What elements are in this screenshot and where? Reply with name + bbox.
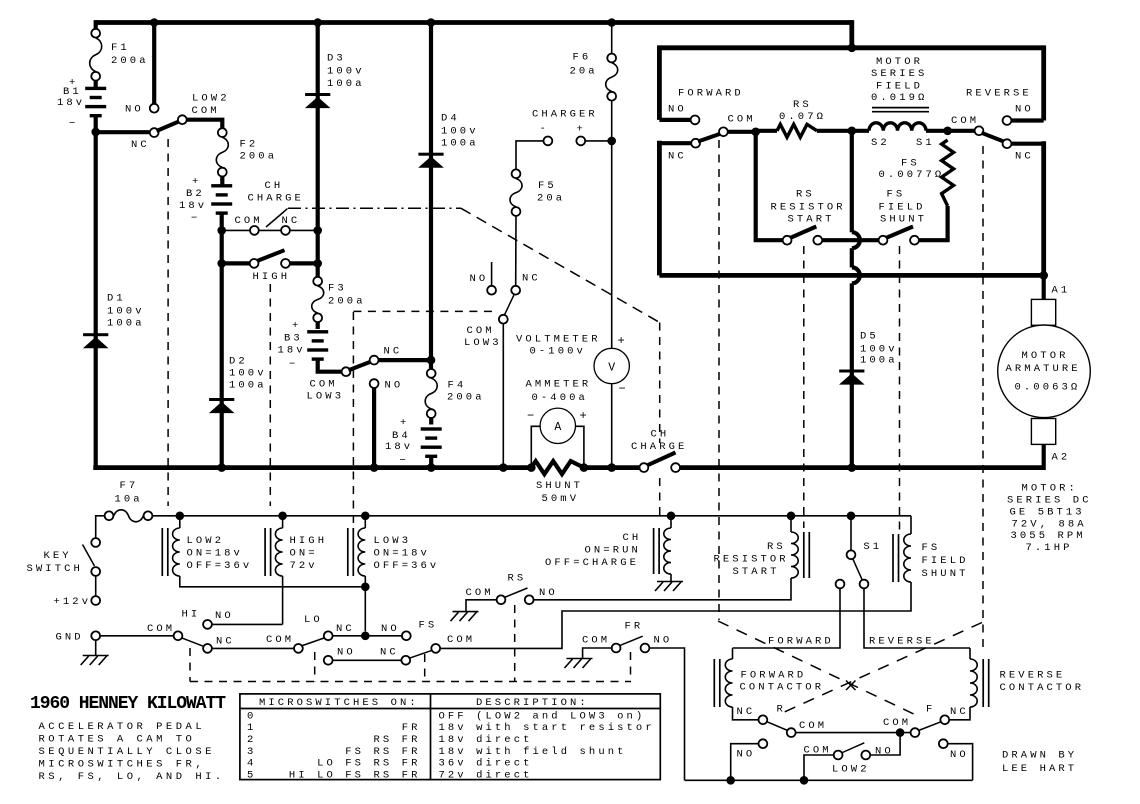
node D2 at bus — [217, 463, 226, 472]
svg-text:COM: COM — [266, 634, 294, 646]
terminal LO COM — [294, 644, 303, 653]
svg-text:5: 5 — [247, 770, 256, 782]
terminal REV COM — [975, 126, 984, 135]
svg-text:NC: NC — [384, 346, 403, 358]
svg-text:18v: 18v — [385, 441, 413, 453]
terminal LO NC — [324, 631, 333, 640]
svg-text:NC: NC — [216, 636, 235, 648]
wire LOW2sw COM drop — [804, 755, 833, 780]
svg-text:0-100v: 0-100v — [530, 346, 586, 358]
table microswitch box — [240, 694, 660, 780]
svg-text:D1: D1 — [107, 293, 126, 305]
node S2 junction — [848, 127, 857, 136]
fuse F4 200a — [427, 369, 436, 378]
coil CH relay — [664, 528, 671, 574]
svg-text:3: 3 — [247, 746, 256, 758]
svg-text:F1: F1 — [111, 42, 130, 54]
wire between hops — [850, 248, 854, 267]
switch blade R (NC-COM) — [767, 722, 788, 731]
wire HIGH row left — [222, 261, 250, 265]
svg-text:F5: F5 — [538, 180, 557, 192]
svg-text:200a: 200a — [328, 296, 366, 308]
svg-text:S1: S1 — [863, 541, 882, 553]
svg-text:F6: F6 — [573, 52, 592, 64]
node HIGH row right junction — [313, 259, 322, 268]
svg-text:COM: COM — [799, 720, 827, 732]
wire FORWARD coil bottom — [733, 707, 759, 720]
svg-text:100a: 100a — [327, 78, 365, 90]
svg-text:−: − — [191, 213, 200, 225]
svg-text:NO: NO — [737, 749, 756, 761]
switch blade LOW3 (COM-NC) — [349, 361, 372, 370]
ground symbol CH — [657, 581, 683, 583]
ground symbol key — [83, 655, 109, 657]
resistor RS 0.07 — [777, 124, 817, 137]
wire A2 lead — [1042, 444, 1046, 470]
switch blade CH CHARGE (open) — [647, 453, 676, 466]
meter voltmeter V — [594, 348, 629, 383]
svg-text:NC: NC — [1015, 151, 1034, 163]
core bars HIGH — [264, 528, 266, 576]
terminal LOW2 NO — [150, 104, 159, 113]
svg-text:DESCRIPTION:: DESCRIPTION: — [476, 697, 589, 709]
svg-text:72V, 88A: 72V, 88A — [1012, 519, 1087, 531]
motor terminal box top — [1031, 299, 1055, 325]
node charger junction — [607, 137, 616, 146]
switch blade LO (COM-NC) — [301, 638, 325, 647]
svg-text:36v direct: 36v direct — [439, 758, 533, 770]
resistor FS 0.0077 — [942, 140, 954, 206]
coil RS relay — [791, 532, 798, 578]
node coil bottom bus junction — [361, 583, 370, 592]
wire FR COM to ground — [583, 648, 612, 659]
wire LOW3 coil top lead — [364, 516, 366, 528]
wire RS junction down to switch — [756, 132, 783, 240]
svg-text:200a: 200a — [447, 392, 485, 404]
coil LOW2 relay — [173, 528, 180, 576]
terminal S1 left — [836, 580, 845, 589]
svg-text:CH: CH — [265, 180, 284, 192]
svg-text:SERIES DC: SERIES DC — [1007, 495, 1092, 507]
core bars REVERSE — [982, 659, 984, 707]
svg-text:RESISTOR: RESISTOR — [714, 554, 789, 566]
svg-text:NO: NO — [337, 647, 356, 659]
node S1 branch junction — [847, 512, 856, 521]
svg-text:FR: FR — [402, 722, 421, 734]
terminal S1 top — [847, 550, 856, 559]
svg-text:ACCELERATOR PEDAL: ACCELERATOR PEDAL — [39, 721, 206, 733]
switch blade F (COM-NC) — [919, 722, 942, 731]
wire F3 to B3 — [316, 322, 320, 329]
terminal FWD COM — [719, 127, 728, 136]
svg-text:7.1HP: 7.1HP — [1026, 542, 1073, 554]
svg-text:START: START — [733, 566, 780, 578]
switch blade RS start (open) — [790, 227, 816, 239]
terminal LOW2 COM — [178, 115, 187, 124]
svg-text:NO: NO — [668, 104, 687, 116]
svg-text:COM: COM — [467, 325, 495, 337]
svg-text:F7: F7 — [120, 480, 139, 492]
wire HIGH coil bottom riser — [282, 576, 284, 624]
wire chg COM down to bus — [502, 324, 504, 468]
wire RS COM to ground — [466, 600, 496, 612]
svg-text:NC: NC — [336, 623, 355, 635]
wire FWD COM to RS junction — [728, 130, 758, 134]
svg-text:NC: NC — [282, 215, 301, 227]
wire LO NC to NO — [333, 635, 402, 637]
terminal FR COM — [612, 644, 621, 653]
node LOW2 coil junction — [176, 512, 185, 521]
svg-text:GE 5BT13: GE 5BT13 — [1010, 507, 1085, 519]
diode D3 100v 100a — [305, 93, 330, 96]
terminal charger plus — [576, 137, 585, 146]
svg-text:RS, FS, LO, AND HI.: RS, FS, LO, AND HI. — [39, 771, 225, 783]
wire box bottom edge — [659, 273, 1043, 278]
wire Fwd aux NO drop — [731, 744, 759, 781]
svg-text:NC: NC — [522, 273, 541, 285]
core bars LOW3 — [347, 528, 349, 576]
terminal LOW3 NC — [370, 356, 379, 365]
svg-text:RS: RS — [793, 99, 812, 111]
terminal FSsw NO — [324, 656, 333, 665]
svg-text:LOW3: LOW3 — [374, 535, 412, 547]
wire hop over RS-FS row — [852, 232, 860, 248]
svg-text:18v with field shunt: 18v with field shunt — [439, 746, 627, 758]
svg-text:72v: 72v — [290, 560, 318, 572]
svg-text:0.0063Ω: 0.0063Ω — [1015, 382, 1081, 394]
svg-text:+: + — [577, 124, 586, 136]
svg-text:200a: 200a — [240, 150, 278, 162]
wire F7 left lead — [96, 516, 105, 538]
wire bus to F1 — [94, 20, 98, 28]
wire charger minus to F5 — [516, 141, 543, 169]
svg-text:+: + — [400, 417, 409, 429]
node CH coil junction — [667, 512, 676, 521]
terminal LOW2 NC — [150, 128, 159, 137]
table header underline — [240, 708, 660, 710]
dashed cross A — [718, 621, 918, 716]
svg-text:FORWARD: FORWARD — [741, 670, 807, 682]
svg-text:OFF=CHARGE: OFF=CHARGE — [545, 557, 639, 569]
terminal LOW2sw COM — [834, 751, 843, 760]
wire junction down to D1 and bottom bus — [94, 132, 98, 468]
switch blade LOW2 (NC-COM) — [157, 121, 181, 131]
svg-text:ON=18v: ON=18v — [374, 548, 430, 560]
svg-text:NC: NC — [668, 151, 687, 163]
wire S1 junction to REV COM — [948, 129, 975, 133]
terminal LOW3 NO — [370, 379, 379, 388]
svg-text:NC: NC — [737, 706, 756, 718]
wire F2 to B2 — [220, 177, 224, 185]
svg-text:SHUNT: SHUNT — [880, 214, 927, 226]
svg-text:NO: NO — [654, 635, 673, 647]
wire CH contact row — [222, 229, 318, 231]
node shunt left — [527, 463, 536, 472]
fuse F6 20a — [607, 54, 616, 63]
wire LOW3 NC to D4 junction — [379, 358, 431, 362]
switch blade HI (COM-NC) — [182, 638, 204, 647]
node bottom wire right — [800, 776, 809, 785]
wire B1 junction to LOW2 NC — [96, 130, 150, 134]
svg-text:0-400a: 0-400a — [532, 392, 588, 404]
coil LOW3 relay — [358, 528, 365, 576]
svg-text:FORWARD: FORWARD — [678, 88, 744, 100]
wire RS coil bottom — [534, 578, 791, 600]
wire contactor box top edge — [659, 45, 1043, 50]
svg-text:A1: A1 — [1052, 285, 1071, 297]
core bars FS — [892, 534, 894, 582]
wire S1 left to FORWARD — [733, 589, 841, 648]
svg-text:NO: NO — [385, 380, 404, 392]
terminal GND — [91, 631, 100, 640]
wire FS coil bottom — [440, 582, 911, 648]
core bars LOW2 — [161, 528, 163, 576]
terminal chg NC — [511, 286, 520, 295]
wire box left edge upper — [657, 45, 662, 120]
svg-text:CONTACTOR: CONTACTOR — [740, 682, 825, 694]
svg-text:F: F — [926, 704, 935, 716]
wire B4 to bottom bus — [429, 455, 433, 468]
switch blade HIGH (open) — [257, 250, 285, 261]
motor armature circle — [998, 325, 1091, 418]
svg-text:VOLTMETER: VOLTMETER — [516, 334, 601, 346]
wire LOW3 NO to bottom bus — [372, 388, 376, 467]
terminal chg NO — [487, 286, 496, 295]
dashed cam FR — [630, 652, 632, 682]
terminal HIGH b — [281, 259, 290, 268]
dashed cross B — [781, 623, 982, 714]
svg-text:KEY: KEY — [44, 550, 72, 562]
svg-text:FS: FS — [901, 158, 920, 170]
svg-text:LOW2: LOW2 — [832, 764, 870, 776]
node LOW3 coil junction — [361, 512, 370, 521]
wire box left edge lower — [657, 141, 662, 276]
terminal key switch top — [91, 538, 100, 547]
svg-text:CONTACTOR: CONTACTOR — [1000, 682, 1085, 694]
fuse F2 200a — [218, 128, 227, 137]
wire junction to F4 — [429, 360, 433, 369]
coil MOTOR SERIES FIELD — [869, 123, 926, 131]
wire CH coil top lead — [670, 516, 672, 528]
wire RS-FS row through hop — [823, 238, 879, 242]
svg-text:MICROSWITCHES ON:: MICROSWITCHES ON: — [259, 697, 419, 709]
svg-text:FIELD: FIELD — [879, 202, 926, 214]
svg-text:LOW3: LOW3 — [464, 337, 502, 349]
wire F5 to LOW3 NC contact — [515, 216, 517, 285]
node shunt right — [580, 463, 589, 472]
wire chg NO stub — [491, 262, 493, 286]
wire LOW3 coil bottom — [364, 576, 366, 631]
wire box right edge lower — [1041, 141, 1046, 275]
wire F4 to B4 — [429, 418, 433, 424]
svg-text:0: 0 — [247, 710, 256, 722]
svg-text:50mV: 50mV — [542, 493, 580, 505]
wire REV NC stub — [1012, 142, 1044, 146]
terminal RS switch right — [813, 236, 822, 245]
svg-text:LOW3: LOW3 — [307, 391, 345, 403]
svg-text:20a: 20a — [570, 66, 598, 78]
wire GND to HI COM — [100, 635, 173, 637]
svg-text:RS: RS — [767, 541, 786, 553]
svg-text:MOTOR:: MOTOR: — [1022, 483, 1078, 495]
svg-text:CH: CH — [623, 532, 642, 544]
terminal FSsw NC — [401, 656, 410, 665]
coil FORWARD contactor — [725, 659, 732, 707]
wire FWD NO stub — [659, 118, 690, 122]
terminal S1 right — [860, 580, 869, 589]
wire NO stub from top bus — [152, 23, 156, 104]
svg-text:SERIES: SERIES — [871, 68, 927, 80]
dashed link LOW2 — [167, 139, 169, 506]
svg-text:COM: COM — [728, 114, 756, 126]
wire hop over box bottom — [852, 267, 860, 283]
svg-text:REVERSE: REVERSE — [869, 636, 935, 648]
switch blade S1 — [853, 559, 862, 580]
svg-text:R: R — [777, 704, 786, 716]
node HIGH coil junction — [278, 512, 287, 521]
svg-text:FIELD: FIELD — [922, 555, 969, 567]
wire HIGH coil top lead — [282, 516, 284, 528]
wire charger plus to F6 line — [586, 140, 612, 142]
svg-text:NO: NO — [1015, 104, 1034, 116]
wire RS coil top lead — [790, 516, 792, 532]
svg-text:LO FS RS FR: LO FS RS FR — [317, 758, 420, 770]
dashed link CH diagonal — [461, 208, 660, 322]
wire D3 branch — [316, 23, 320, 277]
wire FWD NC stub — [659, 141, 691, 145]
svg-text:SHUNT: SHUNT — [536, 480, 583, 492]
svg-text:SHUNT: SHUNT — [922, 568, 969, 580]
switch blade key (open) — [83, 545, 95, 567]
switch blade FSsw (NC-COM) — [409, 650, 433, 658]
wire D4 branch — [429, 23, 433, 361]
terminal Rev ctr NC — [940, 715, 949, 724]
svg-text:100a: 100a — [107, 318, 145, 330]
svg-text:NO: NO — [470, 273, 489, 285]
wire FS coil top lead — [910, 516, 912, 534]
wire FS resistor to switch corner — [919, 206, 947, 240]
svg-text:−: − — [527, 409, 534, 423]
svg-text:COM: COM — [883, 717, 911, 729]
node CH row left junction — [217, 226, 226, 235]
terminal REV NO — [1003, 116, 1012, 125]
svg-text:NC: NC — [380, 647, 399, 659]
coil HIGH relay — [275, 528, 282, 576]
coil FS relay — [904, 534, 911, 582]
wire top bus to F6 — [611, 23, 613, 54]
svg-text:SWITCH: SWITCH — [27, 563, 83, 575]
svg-text:D5: D5 — [860, 331, 879, 343]
node D4 bottom junction — [427, 356, 436, 365]
wire bottom collector — [685, 779, 973, 781]
svg-text:FIELD: FIELD — [876, 81, 923, 93]
svg-text:MOTOR: MOTOR — [1022, 350, 1069, 362]
wire LOW2 coil top lead — [179, 516, 181, 528]
svg-text:COM: COM — [147, 623, 175, 635]
svg-text:F4: F4 — [448, 380, 467, 392]
battery B3 18v — [307, 330, 328, 333]
svg-text:0.0077Ω: 0.0077Ω — [879, 169, 945, 181]
svg-text:LEE HART: LEE HART — [1002, 763, 1077, 775]
svg-text:RS: RS — [796, 189, 815, 201]
svg-text:REVERSE: REVERSE — [966, 88, 1032, 100]
wire F6 to charger junction — [611, 101, 613, 141]
wire S2S1 drop upper — [850, 131, 854, 232]
wire GND stub to ground — [95, 641, 97, 656]
svg-text:4: 4 — [247, 758, 256, 770]
svg-text:20a: 20a — [537, 193, 565, 205]
wire top bus — [96, 20, 852, 25]
core bars FORWARD — [713, 659, 715, 707]
wire CH coil bottom — [670, 574, 672, 582]
wire B3 to LOW3 COM — [318, 360, 342, 372]
dashed link CH vertical upper — [659, 323, 661, 444]
core bars CH — [653, 528, 655, 574]
terminal RS COM — [497, 595, 506, 604]
terminal F COM — [911, 728, 920, 737]
dashed link FORWARD contactor — [718, 140, 720, 620]
switch blade CH (open) — [266, 209, 288, 228]
wire S1 riser — [850, 516, 852, 550]
wire HI NO to riser — [212, 623, 282, 625]
node top bus junction F6 branch — [607, 18, 616, 27]
switch blade LOW2sw (open) — [841, 743, 864, 753]
svg-text:18v: 18v — [57, 97, 85, 109]
svg-text:−: − — [289, 359, 298, 371]
terminal REV NC — [1003, 139, 1012, 148]
svg-text:ARMATURE: ARMATURE — [1006, 363, 1081, 375]
svg-text:COM: COM — [235, 215, 263, 227]
wire B2 to CH junction — [220, 214, 224, 264]
svg-text:18v direct: 18v direct — [439, 734, 533, 746]
svg-text:18v with start resistor: 18v with start resistor — [439, 722, 655, 734]
node RS junction — [751, 128, 760, 137]
diode D2 100v 100a — [209, 398, 234, 401]
svg-text:OFF=36v: OFF=36v — [187, 560, 253, 572]
wire S1 right to REVERSE — [864, 589, 970, 648]
terminal HI NC — [203, 644, 212, 653]
dashed link CH vertical lower — [659, 478, 661, 519]
svg-text:100a: 100a — [860, 355, 898, 367]
terminal FS switch left — [879, 236, 888, 245]
svg-text:FS: FS — [887, 189, 906, 201]
fuse F5 20a — [512, 169, 521, 178]
terminal FS switch right — [910, 236, 919, 245]
ground symbol RS — [453, 611, 479, 613]
terminal chg COM — [499, 315, 508, 324]
diode D1 100v 100a — [83, 333, 108, 336]
node HIGH row left junction — [217, 259, 226, 268]
svg-text:+: + — [580, 409, 587, 423]
svg-text:100v: 100v — [229, 368, 267, 380]
node bottom wire left — [726, 776, 735, 785]
wire box right edge upper — [1041, 45, 1046, 120]
svg-text:COM: COM — [192, 105, 220, 117]
dashed link RS — [803, 246, 805, 528]
coil REVERSE contactor — [970, 659, 977, 707]
svg-text:NO: NO — [539, 587, 558, 599]
svg-text:AMMETER: AMMETER — [526, 379, 592, 391]
switch blade REV (COM-NC) — [982, 133, 1006, 142]
svg-text:V: V — [608, 362, 615, 375]
node RS coil junction — [787, 512, 796, 521]
svg-text:1: 1 — [247, 722, 256, 734]
wire A1 lead — [1042, 275, 1046, 300]
svg-text:+: + — [192, 176, 201, 188]
svg-text:MICROSWITCHES FR,: MICROSWITCHES FR, — [39, 759, 206, 771]
dashed link FS — [899, 246, 901, 530]
node A1 junction — [1039, 271, 1048, 280]
